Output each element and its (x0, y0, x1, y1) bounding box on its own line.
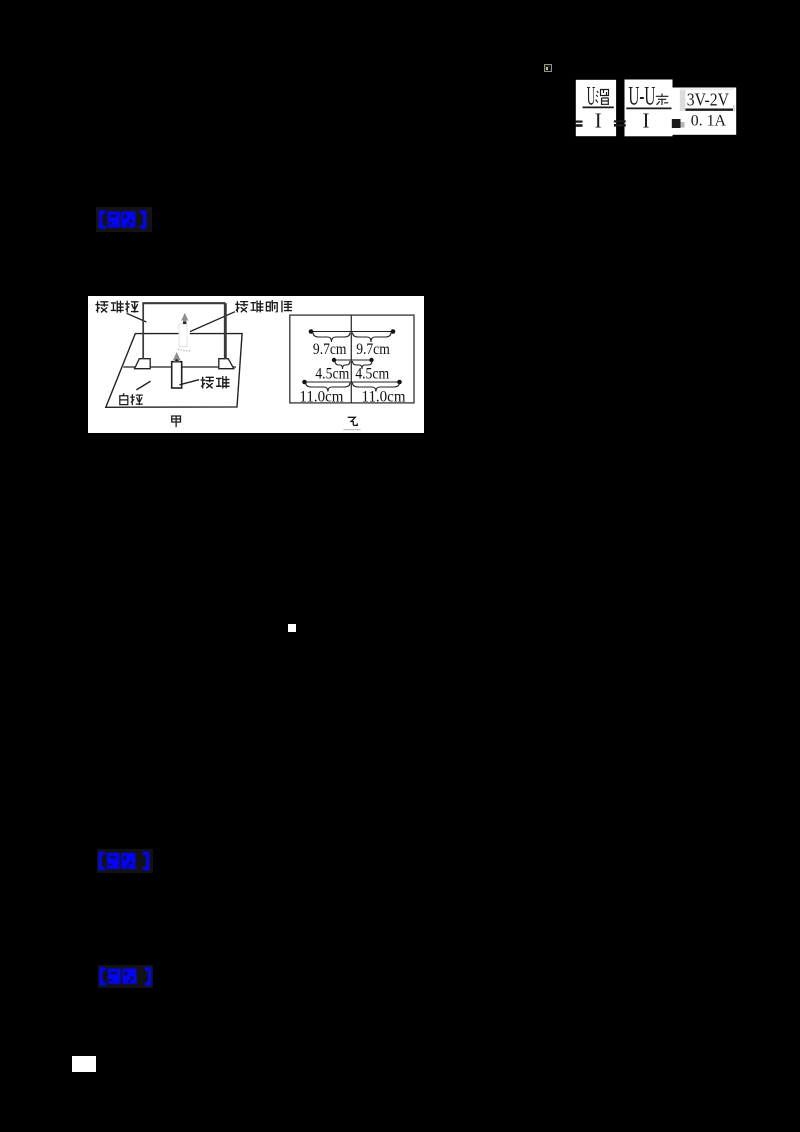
blue label 3 (96, 963, 158, 990)
glass plate top edge (142, 302, 225, 304)
left support block (135, 358, 151, 368)
image candle body (faint) (179, 324, 187, 347)
label bo-li-ban (glass plate) (96, 301, 138, 312)
svg-text:I: I (595, 108, 602, 132)
glass plate right edge (thick) (224, 303, 227, 359)
candle body (172, 361, 182, 387)
white block 3 (672, 88, 736, 135)
row3 measure line with end dots (305, 381, 400, 383)
label la-zhu (candle) (201, 376, 229, 387)
outer rectangle (290, 315, 414, 403)
equals sign 3 (dark blob) (672, 119, 681, 128)
white rect bottom left (72, 1056, 96, 1072)
center vertical line (350, 315, 352, 403)
right support block (219, 358, 234, 368)
subscript hua (596, 90, 609, 106)
equals sign 2 (614, 120, 626, 122)
svg-text:0. 1A: 0. 1A (691, 112, 727, 129)
row3 right brace (353, 382, 400, 391)
label la-zhu-de-xiang (image of candle) (236, 300, 292, 311)
label yi (348, 417, 357, 425)
formula svg (570, 75, 745, 140)
leader line to candle (180, 379, 200, 384)
row2 left brace (335, 361, 350, 369)
equals sign 1 (576, 121, 583, 123)
svg-text:4.5cm: 4.5cm (355, 365, 389, 382)
svg-text:11.0cm: 11.0cm (299, 388, 344, 405)
small broken-image icon top right (544, 64, 553, 73)
image candle flame (gray arrow with dark base) (181, 312, 189, 323)
subscript ding (656, 94, 669, 106)
candle flame (gray arrow with dark base) (173, 352, 181, 362)
faint underline below yi (344, 428, 361, 430)
blue label 1 (94, 206, 156, 233)
svg-text:U: U (587, 82, 596, 111)
row1 measure line with end dots (311, 330, 393, 332)
svg-text:3V-2V: 3V-2V (687, 90, 730, 110)
svg-text:U-U: U-U (628, 82, 655, 111)
blue label 2 (95, 847, 157, 874)
row1 right brace (353, 332, 392, 342)
svg-text:9.7cm: 9.7cm (313, 341, 347, 358)
leader line from bai-zhi (136, 381, 150, 390)
faint dots at image candle base (178, 348, 191, 351)
row3 left brace (306, 382, 350, 391)
leader line to glass plate (127, 313, 147, 322)
row2 measure line with end dots (334, 359, 372, 361)
white block 2 (625, 80, 673, 137)
label bai-zhi (white paper) (120, 393, 143, 404)
svg-text:11.0cm: 11.0cm (362, 388, 407, 405)
row2 right brace (353, 361, 373, 369)
white block 1 (576, 80, 616, 136)
glass plate left edge (142, 303, 144, 359)
figure svg (88, 296, 424, 433)
white square mid page (288, 624, 296, 632)
paper (white sheet parallelogram) (106, 333, 242, 407)
row1 left brace (313, 332, 350, 342)
svg-text:9.7cm: 9.7cm (356, 341, 390, 358)
svg-text:I: I (643, 108, 650, 132)
line on paper (123, 366, 236, 368)
leader line from image label to paper (190, 311, 235, 331)
label jia (172, 415, 181, 426)
svg-text:4.5cm: 4.5cm (315, 365, 349, 382)
